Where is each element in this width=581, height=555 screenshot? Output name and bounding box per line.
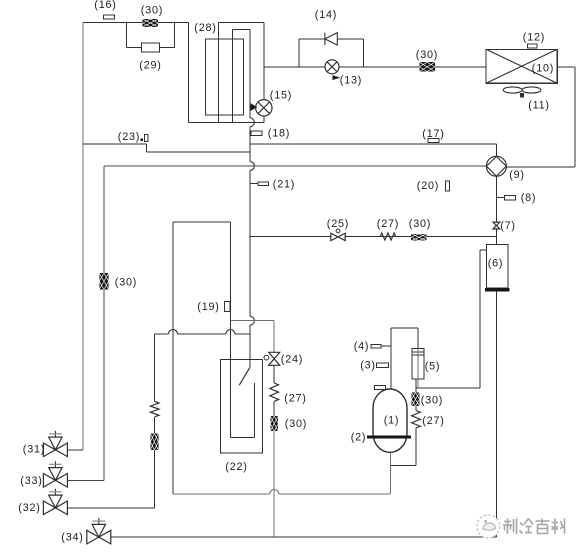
svg-text:(11): (11) — [528, 100, 550, 112]
svg-text:(5): (5) — [425, 361, 441, 373]
svg-text:(9): (9) — [509, 169, 525, 181]
svg-text:(30): (30) — [141, 5, 163, 17]
svg-text:(2): (2) — [351, 432, 367, 444]
svg-text:(15): (15) — [270, 90, 292, 102]
svg-text:(25): (25) — [327, 218, 349, 230]
svg-text:(19): (19) — [197, 301, 219, 313]
svg-text:(20): (20) — [417, 180, 439, 192]
svg-text:(31): (31) — [23, 444, 45, 456]
svg-text:(30): (30) — [409, 218, 431, 230]
svg-text:(32): (32) — [18, 502, 40, 514]
svg-text:(27): (27) — [422, 415, 444, 427]
svg-text:(33): (33) — [20, 475, 42, 487]
svg-text:(6): (6) — [488, 258, 504, 270]
svg-text:(30): (30) — [416, 49, 438, 61]
svg-text:(12): (12) — [523, 32, 545, 44]
svg-text:(34): (34) — [61, 532, 83, 544]
svg-text:(28): (28) — [194, 22, 216, 34]
svg-text:(8): (8) — [521, 192, 537, 204]
svg-text:(30): (30) — [115, 277, 137, 289]
svg-text:(3): (3) — [360, 360, 376, 372]
svg-text:(30): (30) — [421, 395, 443, 407]
svg-text:(16): (16) — [94, 0, 116, 11]
svg-text:(4): (4) — [354, 341, 370, 353]
svg-text:(23): (23) — [118, 131, 140, 143]
svg-text:(14): (14) — [315, 9, 337, 21]
svg-text:(21): (21) — [273, 179, 295, 191]
svg-text:(27): (27) — [284, 393, 306, 405]
svg-text:(24): (24) — [281, 354, 303, 366]
svg-text:(7): (7) — [500, 220, 516, 232]
svg-text:(1): (1) — [384, 415, 400, 427]
svg-text:(10): (10) — [532, 63, 554, 75]
svg-text:(29): (29) — [139, 60, 161, 72]
svg-text:(13): (13) — [340, 75, 362, 87]
svg-text:(27): (27) — [377, 218, 399, 230]
svg-text:(17): (17) — [422, 128, 444, 140]
svg-text:(18): (18) — [268, 128, 290, 140]
svg-text:(30): (30) — [285, 418, 307, 430]
svg-text:(22): (22) — [225, 461, 247, 473]
